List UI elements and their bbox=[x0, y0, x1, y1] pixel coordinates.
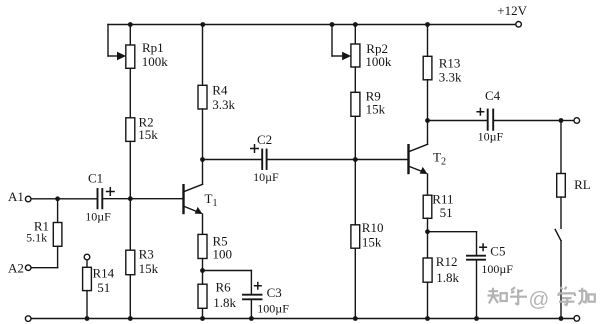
wire R9 to base node 2 bbox=[354, 116, 356, 159]
wire R4 to collector node bbox=[202, 109, 204, 160]
wire output node to RL bbox=[560, 121, 562, 174]
capacitor C5 bbox=[467, 256, 485, 260]
arrow Rp1 wiper head bbox=[117, 52, 126, 60]
resistor R1 bbox=[53, 223, 62, 247]
resistor R11 bbox=[423, 195, 432, 218]
resistor R10 bbox=[351, 225, 360, 248]
capacitor C1 bbox=[98, 189, 103, 208]
wire T2 collector bbox=[427, 121, 429, 145]
switch blade bbox=[555, 230, 561, 241]
wire node to R12 bbox=[427, 232, 429, 258]
node dot T2 base bbox=[353, 157, 358, 162]
resistor R12 bbox=[423, 258, 432, 282]
resistor R5 bbox=[198, 234, 207, 258]
wire T1 emitter to R5 bbox=[202, 214, 204, 234]
terminal A1 bbox=[25, 196, 31, 202]
svg-text:RL: RL bbox=[574, 177, 591, 192]
resistor R13 bbox=[423, 56, 432, 80]
svg-text:5.1k: 5.1k bbox=[26, 231, 47, 245]
wire base node2 to T2 base bbox=[355, 159, 408, 161]
wire bottom rail bbox=[31, 318, 573, 320]
svg-text:15k: 15k bbox=[138, 127, 158, 142]
svg-text:C4: C4 bbox=[485, 88, 501, 103]
polarity plus C3 bbox=[254, 282, 262, 290]
wire base node2 to R10 bbox=[354, 160, 356, 225]
svg-text:R12: R12 bbox=[436, 254, 458, 269]
svg-text:Rp1: Rp1 bbox=[142, 40, 164, 55]
wire C5 top lead bbox=[476, 232, 478, 255]
capacitor C3 bbox=[243, 295, 262, 300]
terminal A2 bbox=[25, 265, 31, 271]
node dot rail C5 bbox=[474, 316, 479, 321]
wire collector node to T1 collector bbox=[202, 160, 204, 185]
node dot top rail col1 bbox=[128, 22, 133, 27]
node dot rail R6 bbox=[200, 316, 205, 321]
wire R11R12 node to C5 bbox=[428, 231, 477, 233]
wire R10 to bottom rail bbox=[354, 248, 356, 318]
wire col1 top to Rp1 bbox=[129, 25, 131, 46]
svg-text:10µF: 10µF bbox=[85, 210, 111, 224]
svg-text:1.8k: 1.8k bbox=[213, 295, 236, 310]
wire C4 node to C4 bbox=[428, 120, 487, 122]
svg-text:C1: C1 bbox=[88, 171, 103, 186]
wire R5 to node bbox=[202, 259, 204, 271]
capacitor C4 bbox=[488, 110, 494, 130]
wire R11 to node bbox=[427, 218, 429, 231]
svg-text:A2: A2 bbox=[8, 261, 24, 276]
svg-text:C5: C5 bbox=[490, 243, 505, 258]
node dot rail R14 bbox=[85, 316, 90, 321]
node dot T1 collector bbox=[200, 157, 205, 162]
svg-text:100k: 100k bbox=[142, 54, 169, 69]
svg-text:C2: C2 bbox=[257, 132, 272, 147]
wire R14 to bottom rail bbox=[86, 291, 88, 319]
node dot A1 R1 bbox=[55, 196, 60, 201]
watermark zhihu bbox=[488, 287, 595, 305]
wire C1 to base node bbox=[103, 198, 130, 200]
wire col2 top to Rp2 bbox=[354, 25, 356, 45]
svg-text:3.3k: 3.3k bbox=[212, 97, 235, 112]
wire base node to T1 base bbox=[130, 198, 183, 200]
resistor R14 bbox=[83, 267, 92, 290]
node dot rail C3 bbox=[249, 316, 254, 321]
svg-text:R10: R10 bbox=[362, 220, 384, 235]
wire Rp2 wiper stub vertical bbox=[331, 25, 333, 57]
wire C3 bottom lead bbox=[250, 300, 252, 318]
node dot top rail R13 bbox=[425, 22, 430, 27]
terminal output bbox=[574, 118, 580, 124]
wire C4 to output node bbox=[494, 120, 561, 122]
svg-text:+12V: +12V bbox=[497, 3, 527, 18]
wire Rp2 wiper horizontal bbox=[332, 55, 344, 57]
node dot output bbox=[559, 118, 564, 123]
node dot R5 R6 bbox=[200, 268, 205, 273]
potentiometer Rp2 bbox=[351, 44, 360, 67]
svg-text:R13: R13 bbox=[439, 56, 461, 71]
resistor R2 bbox=[126, 118, 135, 142]
svg-text:100k: 100k bbox=[365, 54, 392, 69]
node dot top rail R4 bbox=[200, 22, 205, 27]
polarity plus C1 bbox=[106, 187, 115, 196]
svg-text:C3: C3 bbox=[267, 285, 282, 300]
wire col R4 top bbox=[202, 25, 204, 86]
wire Rp1 wiper horizontal bbox=[108, 55, 119, 57]
wire T2 emitter to R11 bbox=[427, 174, 429, 195]
wire A1 to C1 bbox=[31, 198, 96, 200]
wire C3 top lead bbox=[250, 271, 252, 295]
terminal +12V bbox=[516, 22, 522, 28]
wire A2 horizontal bbox=[31, 267, 57, 269]
svg-text:100: 100 bbox=[213, 247, 233, 262]
node dot rail R10 bbox=[353, 316, 358, 321]
polarity plus C4 bbox=[476, 108, 484, 116]
node dot rail R3 bbox=[128, 316, 133, 321]
terminal bottom right bbox=[574, 316, 580, 322]
node dot R11 R12 bbox=[425, 229, 430, 234]
wire Rp1 to R2 bbox=[129, 68, 131, 118]
svg-text:51: 51 bbox=[97, 280, 110, 295]
wire R6 to bottom rail bbox=[202, 308, 204, 318]
wire RL to switch bbox=[560, 197, 562, 228]
wire C5 bottom lead bbox=[476, 261, 478, 319]
wire R12 to bottom rail bbox=[427, 282, 429, 318]
node dot rail RL bbox=[559, 316, 564, 321]
wire Rp1 wiper feedback vertical bbox=[107, 25, 109, 57]
svg-text:100µF: 100µF bbox=[481, 262, 513, 276]
wire R3 to bottom rail bbox=[129, 275, 131, 319]
resistor R4 bbox=[198, 85, 207, 109]
svg-text:10µF: 10µF bbox=[253, 170, 279, 184]
svg-text:R14: R14 bbox=[93, 266, 115, 281]
wire node to R6 bbox=[202, 271, 204, 285]
wire switch to bottom rail bbox=[560, 241, 562, 319]
resistor R3 bbox=[126, 250, 135, 275]
node dot C4 collector bbox=[425, 118, 430, 123]
svg-text:R6: R6 bbox=[216, 280, 232, 295]
svg-text:3.3k: 3.3k bbox=[439, 70, 462, 85]
resistor R6 bbox=[198, 284, 207, 308]
arrow Rp2 wiper head bbox=[342, 52, 351, 60]
svg-text:1.8k: 1.8k bbox=[436, 270, 459, 285]
svg-text:A1: A1 bbox=[8, 189, 24, 204]
svg-text:15k: 15k bbox=[366, 102, 386, 117]
potentiometer Rp1 bbox=[126, 45, 135, 68]
transistor T1 bbox=[184, 184, 203, 214]
terminal bottom left bbox=[25, 316, 31, 322]
wire base node to R3 bbox=[129, 199, 131, 250]
wire output node to terminal bbox=[561, 120, 574, 122]
svg-text:51: 51 bbox=[440, 205, 453, 220]
svg-text:R3: R3 bbox=[139, 246, 154, 261]
node dot top rail col2 bbox=[353, 22, 358, 27]
wire col3 top to R13 bbox=[427, 25, 429, 57]
polarity plus C5 bbox=[479, 243, 487, 251]
wire top rail bbox=[108, 24, 515, 26]
wire C2 to stage2 node bbox=[267, 159, 355, 161]
resistor R9 bbox=[351, 92, 360, 116]
resistor RL bbox=[557, 174, 566, 198]
svg-text:10µF: 10µF bbox=[478, 129, 504, 143]
wire R2 to base node bbox=[129, 141, 131, 198]
wire R5R6 node to C3 bbox=[203, 270, 252, 272]
wire R13 to C4 node bbox=[427, 80, 429, 121]
wire R1 bottom to A2 line bbox=[57, 246, 59, 267]
node dot T1 base bbox=[128, 196, 133, 201]
transistor T2 bbox=[409, 144, 428, 174]
svg-text:15k: 15k bbox=[139, 261, 159, 276]
wire Rp2 to R9 bbox=[354, 67, 356, 92]
polarity plus C2 bbox=[250, 144, 259, 153]
svg-text:15k: 15k bbox=[362, 235, 382, 250]
terminal R14 top bbox=[84, 254, 90, 260]
svg-text:100µF: 100µF bbox=[257, 302, 289, 316]
wire collector node to C2 bbox=[203, 159, 262, 161]
wire R1 top bbox=[57, 199, 59, 223]
svg-text:@: @ bbox=[529, 288, 550, 311]
node dot top rail Rp2 stub bbox=[330, 22, 335, 27]
capacitor C2 bbox=[262, 150, 266, 170]
wire R14 terminal to R14 bbox=[86, 260, 88, 267]
svg-text:R4: R4 bbox=[212, 82, 228, 97]
node dot rail R12 bbox=[425, 316, 430, 321]
